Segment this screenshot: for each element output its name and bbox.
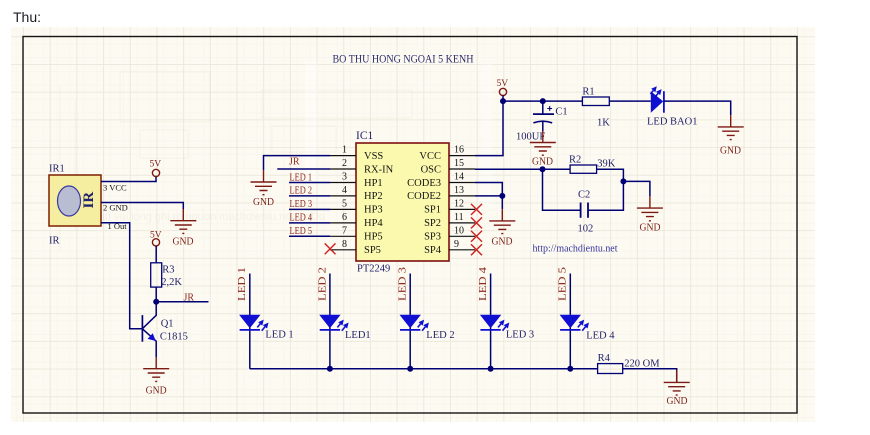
svg-text:1K: 1K <box>597 118 610 129</box>
svg-text:12: 12 <box>454 198 464 209</box>
no-connect X pin11 <box>471 217 482 228</box>
LED D5 column <box>558 267 616 369</box>
svg-text:PT2249: PT2249 <box>357 264 390 275</box>
wire JR net stub <box>156 301 208 303</box>
wire IR1 pin2 to GND <box>101 203 183 210</box>
svg-text:100UF: 100UF <box>516 131 545 142</box>
svg-text:LED 3: LED 3 <box>506 329 534 340</box>
svg-text:LED 2: LED 2 <box>317 267 328 301</box>
wire pin15 OSC to R2 <box>475 168 570 170</box>
transistor Q1 <box>142 302 188 357</box>
IC IC1 PT2249 <box>330 130 475 275</box>
svg-text:R1: R1 <box>582 87 594 98</box>
capacitor C2 <box>543 169 624 234</box>
no-connect X pin9 <box>471 244 482 255</box>
wire junction to GND <box>623 181 650 196</box>
ground GND (R4) <box>664 370 690 407</box>
svg-text:HP2: HP2 <box>364 191 383 202</box>
wire pin2 JR <box>277 168 330 170</box>
ghost watermark remnants (decorative) <box>60 72 412 250</box>
no-connect X pin12 <box>471 204 482 215</box>
svg-text:8: 8 <box>342 239 347 250</box>
svg-text:14: 14 <box>454 172 464 183</box>
wire pin14 CODE3 <box>475 183 502 196</box>
svg-text:5V: 5V <box>497 79 509 89</box>
wire LED bus <box>250 368 598 370</box>
node junction pin13/14 <box>499 193 505 199</box>
node junction OSC/C2 <box>540 166 546 172</box>
wire 5V rail to R1 <box>503 100 582 102</box>
wire pin3 LED 1 <box>289 182 330 184</box>
svg-text:R3: R3 <box>162 265 174 276</box>
node junction bus/LED3 <box>407 366 413 372</box>
LED D3 column <box>398 267 455 369</box>
svg-text:5V: 5V <box>150 160 162 170</box>
capacitor C1 <box>516 101 568 142</box>
no-connect X pin10 <box>471 231 482 242</box>
node JR junction <box>153 299 159 305</box>
resistor R4 <box>598 353 661 374</box>
svg-text:GND: GND <box>173 237 194 248</box>
svg-text:IR: IR <box>49 236 60 247</box>
wire junction to GND <box>501 196 503 209</box>
svg-text:16: 16 <box>454 145 464 156</box>
svg-text:3: 3 <box>342 172 347 183</box>
svg-text:LED BAO1: LED BAO1 <box>647 116 697 127</box>
node junction 5V rail <box>500 98 506 104</box>
ground GND (C2 right) <box>637 196 663 233</box>
wire pin6 LED 4 <box>289 222 330 224</box>
svg-text:IR: IR <box>81 192 97 209</box>
svg-text:R2: R2 <box>569 154 581 165</box>
svg-text:SP1: SP1 <box>424 205 441 216</box>
svg-text:7: 7 <box>342 225 347 236</box>
svg-text:GND: GND <box>532 156 553 167</box>
svg-text:SP5: SP5 <box>364 245 381 256</box>
svg-text:4: 4 <box>342 185 347 196</box>
svg-text:R4: R4 <box>598 353 611 364</box>
svg-text:C1: C1 <box>555 106 567 117</box>
node junction bus/LED5 <box>567 366 573 372</box>
LED D2 column <box>317 267 370 369</box>
ground GND (CODE pins) <box>489 209 515 247</box>
svg-text:LED 2: LED 2 <box>290 186 313 197</box>
svg-text:C1815: C1815 <box>160 332 188 343</box>
svg-text:CODE2: CODE2 <box>407 191 441 202</box>
svg-text:HP4: HP4 <box>364 218 383 229</box>
svg-text:1: 1 <box>342 145 347 156</box>
svg-text:LED 4: LED 4 <box>290 213 313 224</box>
svg-text:GND: GND <box>667 396 688 407</box>
wire pin4 LED 2 <box>289 195 330 197</box>
svg-text:13: 13 <box>454 185 464 196</box>
svg-text:LED1: LED1 <box>345 330 371 341</box>
ground GND (LED BAO1) <box>718 115 744 156</box>
svg-text:GND: GND <box>253 197 274 208</box>
svg-text:2: 2 <box>342 158 347 169</box>
svg-text:OSC: OSC <box>421 164 441 175</box>
wire pin7 LED 5 <box>289 235 330 237</box>
svg-text:LED 5: LED 5 <box>290 226 313 237</box>
node junction bus/LED2 <box>327 366 333 372</box>
svg-text:GND: GND <box>640 223 661 234</box>
ground GND (C1) <box>530 131 556 167</box>
power 5V terminal A <box>150 160 162 177</box>
svg-text:39K: 39K <box>597 158 616 169</box>
LED D4 column <box>478 266 534 369</box>
wire pin13 CODE2 <box>475 195 502 197</box>
wire IR1 pin3 to 5V <box>101 177 156 182</box>
svg-text:IR1: IR1 <box>49 164 65 175</box>
svg-text:HP5: HP5 <box>364 232 383 243</box>
no-connect X pin8 <box>325 243 336 254</box>
svg-text:LED 2: LED 2 <box>426 330 454 341</box>
svg-text:http://machdientu.net: http://machdientu.net <box>533 244 618 255</box>
svg-text:LED 4: LED 4 <box>478 266 489 301</box>
LED D1 column <box>237 267 293 369</box>
wire LED to GND <box>664 101 731 115</box>
svg-text:5V: 5V <box>150 231 162 241</box>
svg-text:RX-IN: RX-IN <box>364 164 394 175</box>
svg-text:VSS: VSS <box>364 151 383 162</box>
svg-text:9: 9 <box>454 239 459 250</box>
node junction C2 right <box>620 178 626 184</box>
svg-text:2,2K: 2,2K <box>161 277 182 288</box>
svg-text:LED 3: LED 3 <box>290 199 313 210</box>
power 5V terminal (top rail) <box>497 79 509 101</box>
svg-text:LED 5: LED 5 <box>558 267 569 301</box>
resistor R2 <box>569 154 616 173</box>
resistor R1 <box>582 87 610 129</box>
svg-text:GND: GND <box>146 386 167 397</box>
power 5V terminal B <box>150 231 162 246</box>
ground GND (Q1 emitter) <box>143 357 169 397</box>
svg-text:220 OM: 220 OM <box>624 359 660 370</box>
svg-text:3 VCC: 3 VCC <box>103 183 127 193</box>
svg-text:5: 5 <box>342 198 347 209</box>
svg-text:SP4: SP4 <box>424 245 442 256</box>
ground GND (IC pin1) <box>251 170 277 208</box>
wire R2 right down to junction <box>597 169 624 181</box>
svg-text:JR: JR <box>289 157 300 168</box>
sheet border frame <box>23 37 797 414</box>
ground GND (IR1 pin2) <box>170 209 196 248</box>
wire R1 to LED <box>609 100 651 102</box>
svg-text:SP3: SP3 <box>424 232 441 243</box>
svg-text:LED 3: LED 3 <box>398 267 409 301</box>
LED BAO1 <box>647 86 697 127</box>
svg-text:HP1: HP1 <box>364 178 383 189</box>
svg-text:LED 1: LED 1 <box>290 172 313 183</box>
svg-text:SP2: SP2 <box>424 218 441 229</box>
wire R4 to GND <box>623 369 677 383</box>
svg-text:IC1: IC1 <box>356 130 374 142</box>
svg-text:10: 10 <box>454 225 464 236</box>
svg-text:Q1: Q1 <box>161 319 174 330</box>
svg-text:GND: GND <box>720 146 741 157</box>
svg-text:LED 1: LED 1 <box>237 267 248 301</box>
svg-text:6: 6 <box>342 212 347 223</box>
svg-text:C2: C2 <box>578 190 590 201</box>
svg-text:2 GND: 2 GND <box>103 203 128 213</box>
svg-text:HP3: HP3 <box>364 205 383 216</box>
node junction bus/LED4 <box>488 366 494 372</box>
wire pin16 VCC to 5V <box>475 101 503 156</box>
node junction C1 top <box>540 98 546 104</box>
svg-text:JR: JR <box>184 293 195 304</box>
wire R3 to collector junction <box>155 287 157 302</box>
svg-text:BO THU HONG NGOAI 5 KENH: BO THU HONG NGOAI 5 KENH <box>333 52 474 66</box>
wire pin1 to GND <box>264 156 331 171</box>
pins left (1-8) <box>330 156 356 250</box>
pins right (16-9) <box>449 156 475 250</box>
wire 5V-B to R3 <box>155 246 157 263</box>
svg-text:15: 15 <box>454 158 464 169</box>
svg-text:VCC: VCC <box>419 151 441 162</box>
svg-text:LED 4: LED 4 <box>586 330 615 341</box>
svg-text:102: 102 <box>578 223 594 234</box>
svg-text:GND: GND <box>492 236 513 247</box>
wire IR1 pin1 down to Q1 base <box>101 223 142 329</box>
resistor R3 <box>151 263 183 288</box>
wire pin5 LED 3 <box>289 208 330 210</box>
svg-text:CODE3: CODE3 <box>407 178 441 189</box>
IR receiver IR1 <box>49 164 128 247</box>
svg-text:LED 1: LED 1 <box>265 330 293 341</box>
svg-text:11: 11 <box>454 212 464 223</box>
